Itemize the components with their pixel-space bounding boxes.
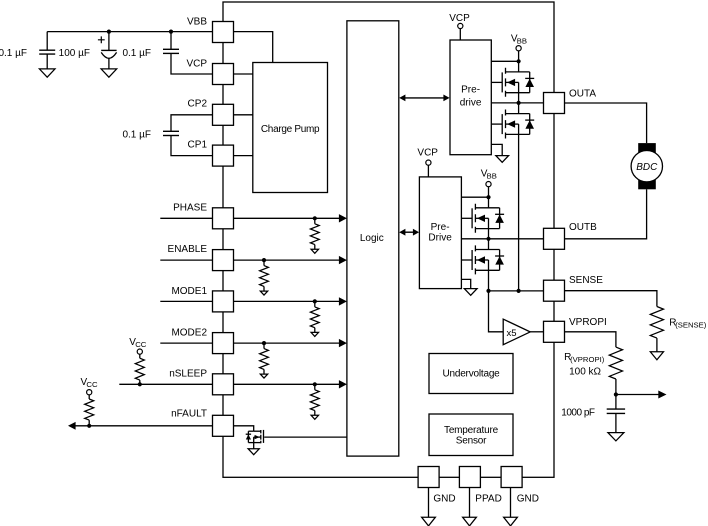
node OUTA — [517, 101, 521, 105]
svg-text:0.1 µF: 0.1 µF — [0, 48, 27, 59]
ground — [650, 352, 663, 360]
svg-text:(SENSE): (SENSE) — [675, 321, 707, 330]
pin ENABLE — [213, 250, 234, 271]
svg-text:nSLEEP: nSLEEP — [169, 369, 207, 380]
wire low FET B source to sense rail — [488, 270, 490, 291]
pin nFAULT — [213, 415, 234, 436]
bidirectional arrow logic to pre-drive A — [405, 97, 445, 99]
wire ENABLE input — [160, 259, 212, 261]
resistor nSLEEP pulldown — [314, 384, 316, 390]
node sense-A — [517, 289, 521, 293]
resistor PHASE pulldown — [314, 218, 316, 224]
svg-text:BB: BB — [517, 37, 527, 46]
pin VCP — [213, 64, 234, 85]
pin PPAD — [459, 467, 480, 488]
node ENABLE pulldown junction — [262, 258, 266, 262]
pin MODE2 — [213, 333, 234, 354]
svg-text:OUTB: OUTB — [569, 222, 597, 233]
svg-text:VPROPI: VPROPI — [569, 317, 607, 328]
transistor nFAULT open-drain FET — [248, 430, 253, 432]
node MODE2 pulldown junction — [262, 341, 266, 345]
wire sense rail — [489, 290, 544, 292]
svg-text:Undervoltage: Undervoltage — [442, 368, 500, 379]
capacitor 0.1 uF (VBB bypass) — [46, 32, 48, 51]
wire ENABLE to logic — [234, 259, 341, 261]
svg-text:Drive: Drive — [428, 232, 452, 243]
pin GND (left) — [418, 467, 439, 488]
wire CP2 to charge pump — [234, 114, 253, 116]
ground — [463, 517, 477, 526]
resistor R(VPROPI) 100 kOhm — [609, 347, 622, 379]
resistor MODE1 pulldown — [314, 301, 316, 307]
resistor MODE2 pulldown — [263, 343, 265, 349]
svg-text:0.1 µF: 0.1 µF — [122, 129, 151, 140]
svg-text:CP2: CP2 — [188, 99, 208, 110]
resistor ENABLE pulldown — [263, 260, 265, 266]
node nFAULT pullup junction — [87, 424, 91, 428]
wire VPROPI to Rvpropi — [565, 332, 616, 347]
capacitor 0.1 uF (charge pump flying) — [171, 115, 213, 132]
wire sense to x5 amp input — [489, 291, 504, 332]
ground — [248, 449, 259, 455]
svg-text:VCP: VCP — [417, 148, 438, 159]
wire FET source to ground — [253, 443, 255, 449]
svg-text:Pre-: Pre- — [461, 85, 480, 96]
wire pre-drive A ground tap — [491, 144, 502, 155]
op-amp x5 current sense amplifier — [503, 319, 530, 345]
svg-text:Sensor: Sensor — [456, 436, 487, 447]
svg-text:ENABLE: ENABLE — [168, 244, 208, 255]
wire VBB rail — [47, 31, 212, 33]
node nSLEEP junction — [138, 382, 142, 386]
svg-text:0.1 µF: 0.1 µF — [122, 48, 151, 59]
pin CP2 — [213, 104, 234, 125]
ground — [311, 332, 318, 336]
svg-text:VCP: VCP — [186, 59, 207, 70]
ground — [464, 289, 477, 296]
capacitor 1000 pF — [615, 395, 617, 410]
svg-text:100 kΩ: 100 kΩ — [569, 366, 601, 377]
ground — [496, 156, 509, 163]
wire GND stem right — [510, 488, 512, 518]
pin SENSE — [544, 280, 565, 301]
pre-drive block A — [450, 40, 491, 155]
wire motor to OUTB — [565, 189, 647, 239]
pin VBB — [213, 22, 234, 43]
node VPROPI filter — [614, 392, 618, 396]
svg-text:CC: CC — [135, 340, 147, 349]
svg-text:Logic: Logic — [360, 233, 384, 244]
wire VBB to charge pump — [234, 32, 273, 63]
node sense-B — [486, 289, 490, 293]
svg-text:OUTA: OUTA — [569, 89, 596, 100]
transistor low-side FET A — [491, 123, 502, 125]
ground — [504, 517, 518, 526]
node MODE1 pulldown junction — [313, 299, 317, 303]
ground — [39, 69, 55, 77]
svg-text:nFAULT: nFAULT — [171, 409, 207, 420]
pre-drive block B — [419, 177, 461, 289]
svg-text:Temperature: Temperature — [444, 425, 499, 436]
svg-text:GND: GND — [433, 494, 455, 505]
ground — [260, 374, 267, 378]
bidirectional arrow logic to pre-drive B — [405, 231, 414, 233]
wire pre-drive B to VBB node — [461, 196, 488, 198]
wire MODE1 input — [160, 300, 212, 302]
wire nSLEEP to logic — [234, 383, 341, 385]
wire VCP to charge pump — [234, 73, 253, 75]
wire MODE1 to logic — [234, 300, 341, 302]
wire pre-drive A to VBB node — [491, 60, 518, 62]
device outline — [223, 2, 554, 477]
wire OUTA to motor — [565, 103, 647, 143]
wire low FET A source to sense rail — [518, 134, 520, 291]
svg-text:PPAD: PPAD — [475, 494, 502, 505]
resistor R(SENSE) — [650, 307, 663, 339]
wire SENSE to Rsense — [565, 291, 657, 307]
motor BDC — [638, 143, 656, 153]
wire GND stem left — [428, 488, 430, 518]
svg-text:CC: CC — [86, 380, 98, 389]
node PHASE pulldown junction — [313, 216, 317, 220]
svg-text:PHASE: PHASE — [173, 203, 207, 214]
svg-text:CP1: CP1 — [188, 139, 208, 150]
wire PHASE input — [160, 217, 212, 219]
wire OUTB phase node — [461, 238, 543, 240]
svg-text:drive: drive — [460, 98, 482, 109]
transistor low-side FET B — [461, 259, 472, 261]
pin GND (right) — [501, 467, 522, 488]
resistor nFAULT pull-up — [88, 395, 90, 399]
wire VBB node to high FET drain — [488, 197, 490, 208]
svg-text:Charge Pump: Charge Pump — [261, 124, 320, 135]
wire nFAULT output — [75, 425, 212, 427]
ground — [101, 69, 117, 77]
wire x5 output to VPROPI — [530, 331, 543, 333]
logic block U-LOGIC — [347, 21, 399, 456]
transistor high-side FET B — [461, 217, 472, 219]
capacitor 100 uF (bulk, polarized) — [107, 30, 111, 34]
wire CP1 to charge pump — [234, 155, 253, 157]
resistor nSLEEP pull-up — [139, 354, 141, 358]
svg-text:MODE1: MODE1 — [171, 286, 207, 297]
svg-text:SENSE: SENSE — [569, 275, 603, 286]
node VBB bridge A — [517, 59, 521, 63]
wire OUTA phase node — [491, 102, 543, 104]
node VBB bridge B — [486, 195, 490, 199]
svg-text:VCP: VCP — [449, 13, 470, 24]
undervoltage block — [429, 354, 513, 394]
wire MODE2 to logic — [234, 342, 341, 344]
svg-text:BDC: BDC — [636, 162, 658, 173]
svg-text:1000 pF: 1000 pF — [561, 407, 595, 418]
node OUTB — [486, 237, 490, 241]
ground — [311, 249, 318, 253]
svg-text:GND: GND — [517, 494, 539, 505]
charge pump block — [253, 63, 328, 193]
wire MODE2 input — [160, 342, 212, 344]
svg-text:100 µF: 100 µF — [59, 48, 90, 59]
ground — [311, 415, 318, 419]
ground — [422, 517, 436, 526]
capacitor 0.1 uF (VCP flying to VBB) — [169, 30, 173, 34]
wire VBB node to high FET drain — [518, 61, 520, 72]
svg-text:x5: x5 — [507, 328, 517, 339]
node nSLEEP pulldown junction — [313, 382, 317, 386]
wire nFAULT gate from logic — [264, 436, 347, 438]
wire PPAD stem — [469, 488, 471, 518]
pin OUTA — [544, 93, 565, 114]
pin VPROPI — [544, 321, 565, 342]
svg-text:BB: BB — [487, 172, 497, 181]
svg-text:MODE2: MODE2 — [171, 327, 207, 338]
pin PHASE — [213, 208, 234, 229]
wire pre-drive B ground tap — [461, 279, 470, 288]
pin CP1 — [213, 145, 234, 166]
ground — [260, 291, 267, 295]
transistor high-side FET A — [491, 81, 502, 83]
pin OUTB — [544, 228, 565, 249]
temperature sensor block — [429, 414, 513, 456]
wire VPROPI output arrow — [616, 394, 659, 396]
pin nSLEEP — [213, 374, 234, 395]
svg-text:VBB: VBB — [187, 16, 207, 27]
wire nFAULT to open-drain FET — [234, 426, 254, 431]
svg-text:(VPROPI): (VPROPI) — [570, 355, 605, 364]
wire PHASE to logic — [234, 217, 341, 219]
svg-text:Pre-: Pre- — [431, 222, 450, 233]
wire nSLEEP input — [119, 383, 212, 385]
ground — [608, 433, 624, 441]
pin MODE1 — [213, 291, 234, 312]
